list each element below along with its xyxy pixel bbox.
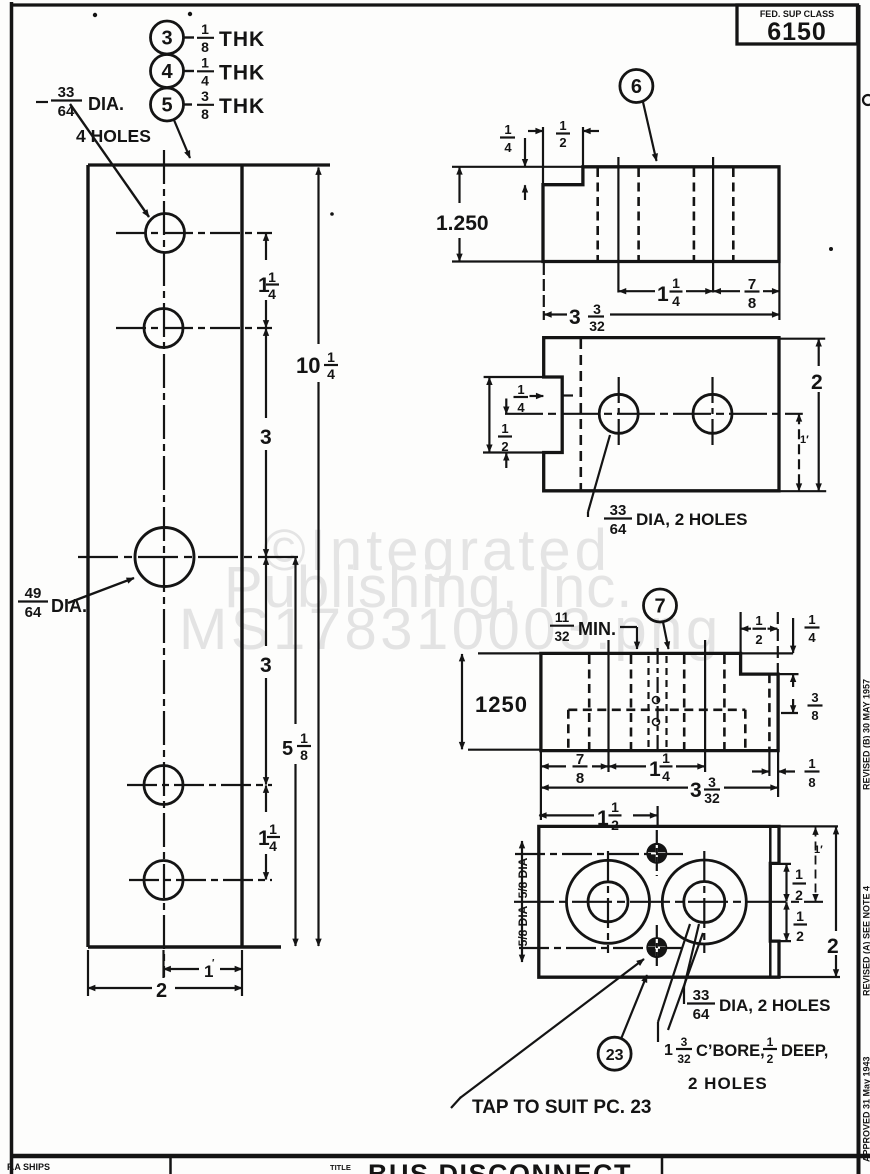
- extension below plate center: [162, 950, 164, 978]
- label 1 3/32 C'BORE 1/2 DEEP: [664, 1035, 691, 1066]
- svg-text:64: 64: [610, 521, 627, 538]
- ext notch right: [582, 127, 584, 167]
- svg-text:8: 8: [808, 775, 815, 790]
- label 49/64 DIA: [25, 585, 42, 621]
- plan6 left edge ext below: [543, 263, 545, 320]
- plan7 hidden 1/8 ext below: [768, 752, 770, 776]
- front7 right tab ext lower: [770, 940, 791, 942]
- balloon 6 leader: [643, 102, 657, 161]
- plan7 tap centerline: [656, 648, 658, 752]
- svg-text:2: 2: [501, 439, 508, 454]
- svg-text:4: 4: [662, 768, 670, 784]
- balloon 5 leader: [174, 120, 190, 158]
- large hole centerline: [78, 556, 302, 558]
- svg-text:APPROVED 31 May 1943: APPROVED 31 May 1943: [862, 1056, 870, 1162]
- plate bottom edge: [88, 945, 281, 948]
- dim 1 1/4 plan7: [609, 765, 646, 767]
- border right: [857, 5, 861, 1174]
- dim 1/2 upper front7: [785, 864, 787, 901]
- leaders c'bore: [668, 933, 703, 1030]
- svg-text:2 HOLES: 2 HOLES: [688, 1074, 768, 1093]
- plan7 top edge extension left: [478, 652, 541, 654]
- front6 hidden line notch: [579, 339, 582, 490]
- svg-text:1: 1: [517, 382, 524, 397]
- plan6 hidden hole edge 1a: [596, 168, 599, 261]
- dim 1 1/4 plan6: [619, 290, 655, 292]
- svg-text:3: 3: [681, 1035, 688, 1049]
- hole H3: [144, 766, 183, 805]
- front7 tap vert centerline upper: [656, 830, 658, 876]
- plate top edge with extension: [88, 163, 330, 166]
- balloon 6: [620, 70, 653, 103]
- hole H2: [144, 309, 183, 348]
- svg-text:32: 32: [589, 318, 605, 334]
- svg-text:6: 6: [631, 76, 642, 98]
- svg-text:1: 1: [808, 612, 815, 627]
- svg-text:1: 1: [808, 756, 815, 771]
- svg-text:32: 32: [704, 790, 720, 806]
- svg-text:32: 32: [677, 1052, 691, 1066]
- svg-text:1′: 1′: [800, 434, 809, 446]
- dim 1.250: [458, 167, 460, 203]
- svg-text:P.A SHIPS: P.A SHIPS: [7, 1162, 50, 1172]
- svg-text:MIN.: MIN.: [578, 619, 616, 639]
- svg-text:1: 1: [796, 908, 804, 924]
- svg-text:1.250: 1.250: [436, 212, 489, 235]
- svg-text:2: 2: [156, 980, 167, 1002]
- front7 counterbore left outer: [567, 860, 650, 943]
- title divider 2: [661, 1158, 664, 1174]
- balloon 23: [598, 1037, 631, 1070]
- sidebar mark: [863, 95, 870, 105]
- svg-text:33: 33: [58, 84, 75, 101]
- svg-text:7: 7: [654, 596, 665, 618]
- title block top line: [10, 1154, 870, 1159]
- tap leader: [460, 959, 644, 1098]
- svg-text:3: 3: [690, 779, 702, 802]
- svg-text:2: 2: [811, 371, 823, 394]
- svg-text:33: 33: [610, 502, 627, 519]
- stray dot 1: [93, 13, 97, 17]
- svg-text:11: 11: [555, 610, 570, 625]
- balloon 7 leader: [663, 622, 669, 649]
- stray dot 3: [829, 247, 833, 251]
- front7 left hole vert centerline: [607, 851, 609, 953]
- dim 5 1/8: [294, 558, 296, 725]
- dim 1/2 notch width: [528, 130, 543, 132]
- svg-text:1: 1: [559, 118, 566, 133]
- plan6 center line hole2: [712, 157, 714, 293]
- dim 1 1/4 holes3-4: [265, 786, 267, 813]
- plan7 hidden tap edge b: [665, 656, 667, 748]
- front7 counterbore right outer: [662, 860, 746, 944]
- balloon 7: [644, 589, 677, 622]
- svg-text:3: 3: [161, 28, 172, 50]
- dim 1/8 plan7: [752, 770, 769, 772]
- svg-text:64: 64: [693, 1006, 710, 1023]
- svg-text:8: 8: [748, 295, 756, 312]
- front7 tap hole lower: [646, 937, 667, 958]
- svg-text:3: 3: [260, 654, 272, 677]
- leader 33/64 to hole: [70, 104, 149, 217]
- svg-text:33: 33: [693, 987, 710, 1004]
- svg-text:1: 1: [649, 758, 661, 781]
- plan7 center line hole2: [704, 640, 706, 772]
- extension below plate left: [87, 950, 89, 996]
- dim 3 3/32 plan6: [544, 313, 567, 315]
- rotated 5/8 DIA upper: [516, 857, 530, 898]
- front7 top ext right: [779, 825, 838, 827]
- svg-text:49: 49: [25, 585, 42, 602]
- dim 2 front7: [835, 827, 837, 931]
- svg-text:3: 3: [708, 774, 716, 790]
- plan6 bottom edge extension: [452, 260, 543, 262]
- dim 1 front7: [815, 828, 817, 902]
- dim 1/4 notch depth: [524, 138, 526, 166]
- balloon 5 tick: [184, 103, 192, 105]
- svg-text:64: 64: [25, 604, 42, 621]
- balloon 5: [151, 88, 184, 121]
- svg-text:1: 1: [657, 283, 669, 306]
- svg-text:5: 5: [161, 95, 172, 117]
- svg-text:8: 8: [201, 39, 209, 55]
- svg-text:8: 8: [576, 770, 584, 787]
- dim 1250 plan7: [461, 654, 463, 749]
- plan7 hidden hole edge 1a: [588, 655, 591, 750]
- hole H3 centerline: [127, 784, 272, 786]
- dim 1/4 plan7 notch depth: [792, 618, 794, 653]
- dim 2 front6: [818, 339, 820, 366]
- svg-text:1: 1: [672, 275, 680, 291]
- leader 49/64: [68, 578, 134, 603]
- svg-text:4: 4: [808, 630, 816, 645]
- svg-text:1: 1: [664, 1042, 673, 1059]
- fraction 1/4 THK: [201, 55, 209, 89]
- stray dot 1b: [188, 12, 192, 16]
- plate vertical centerline: [163, 150, 165, 977]
- front7 big hole centerline: [514, 901, 823, 903]
- svg-text:2: 2: [795, 887, 803, 903]
- dim 3 3/32 plan7: [541, 786, 688, 788]
- dim chain 1 1/4 holes1-2: [265, 234, 267, 261]
- svg-text:3: 3: [569, 306, 581, 329]
- front7 hole left inner: [588, 882, 628, 922]
- front7 tap centerline lower: [519, 947, 683, 949]
- svg-text:REVISED (B) 30 MAY 1957: REVISED (B) 30 MAY 1957: [862, 679, 870, 790]
- fraction 1/8 THK: [201, 21, 209, 55]
- svg-text:THK: THK: [219, 62, 265, 85]
- front6 notch top ext: [484, 376, 543, 378]
- plan6 top edge extension: [452, 166, 583, 168]
- plan6 hidden hole edge 1b: [637, 168, 640, 261]
- svg-text:TAP TO SUIT PC. 23: TAP TO SUIT PC. 23: [472, 1097, 652, 1118]
- plan7 right edge ext below: [777, 752, 779, 797]
- plan6 hidden hole edge 2b: [732, 168, 735, 261]
- dim 2 bottom: [88, 987, 152, 989]
- svg-text:THK: THK: [219, 95, 265, 118]
- notch bottom ext right: [778, 673, 798, 675]
- svg-text:32: 32: [554, 629, 569, 644]
- plan7 hidden hole edge 2b: [723, 655, 726, 750]
- svg-text:1: 1: [767, 1035, 774, 1049]
- dim 10 1/4: [317, 168, 319, 345]
- hole H4 centerline: [129, 879, 272, 881]
- front7 outline with right tabs: [539, 826, 779, 977]
- front6 notch height dim line: [488, 378, 490, 452]
- svg-text:3: 3: [201, 88, 209, 104]
- svg-text:BUS DISCONNECT: BUS DISCONNECT: [368, 1159, 632, 1174]
- svg-text:C’BORE,: C’BORE,: [696, 1042, 765, 1060]
- plan7 top edge extension right: [741, 652, 794, 654]
- balloon 23 leader: [621, 975, 647, 1039]
- svg-text:2: 2: [755, 632, 762, 647]
- leader 11/32: [620, 626, 637, 628]
- svg-text:8: 8: [300, 747, 308, 763]
- fraction 3/8 THK: [201, 88, 209, 122]
- svg-text:8: 8: [811, 708, 818, 723]
- plan7 center detail circle a: [653, 697, 660, 704]
- dim 3/8 plan7: [792, 699, 794, 713]
- leader 33/64 front7: [684, 924, 699, 987]
- label 33/64 DIA 2 HOLES front6: [588, 435, 610, 512]
- stray dot 2: [330, 212, 334, 216]
- plan7 hidden tap edge a: [647, 656, 649, 748]
- svg-text:1: 1: [268, 269, 276, 285]
- plan7 center line hole1: [607, 640, 609, 772]
- svg-text:′: ′: [212, 958, 215, 969]
- recess ext right: [781, 712, 798, 714]
- svg-text:5/8 DIA: 5/8 DIA: [516, 857, 530, 898]
- dim 1 front6: [798, 414, 800, 490]
- svg-text:4: 4: [672, 293, 680, 309]
- svg-text:2: 2: [559, 135, 566, 150]
- svg-text:DEEP,: DEEP,: [781, 1042, 828, 1060]
- svg-text:2: 2: [767, 1052, 774, 1066]
- svg-text:4: 4: [504, 140, 512, 155]
- front6 hole1: [599, 394, 638, 433]
- label 33/64 DIA 2 HOLES front7: [693, 987, 710, 1023]
- front6 top ext right: [779, 338, 825, 340]
- svg-text:1: 1: [201, 21, 209, 37]
- svg-text:5: 5: [282, 738, 293, 760]
- plan6 center line hole1: [617, 157, 619, 293]
- plan7 left edge ext below: [540, 752, 542, 820]
- border top: [10, 3, 859, 6]
- svg-text:1′: 1′: [814, 844, 823, 856]
- svg-text:1: 1: [611, 799, 619, 815]
- plan7 outline with top-right notch: [541, 653, 778, 750]
- svg-text:1: 1: [662, 750, 670, 766]
- border left: [10, 2, 14, 1174]
- svg-text:2: 2: [796, 928, 804, 944]
- front6 hole centerline: [505, 413, 803, 415]
- front7 hole right inner: [684, 882, 725, 923]
- svg-text:DIA, 2 HOLES: DIA, 2 HOLES: [719, 996, 830, 1015]
- plan6 hidden hole edge 2a: [693, 168, 696, 261]
- title divider 1: [169, 1158, 172, 1174]
- front6 hole2: [693, 394, 732, 433]
- svg-text:3: 3: [260, 426, 272, 449]
- svg-text:4: 4: [268, 286, 276, 302]
- svg-text:1: 1: [327, 349, 335, 365]
- hole H1 centerline: [116, 232, 272, 234]
- plate left edge: [86, 165, 89, 947]
- svg-text:1: 1: [269, 821, 277, 837]
- ext notch left: [542, 127, 544, 184]
- hole H1: [146, 214, 185, 253]
- front7 tap vert centerline lower: [656, 925, 658, 968]
- dim 1/2 lower front7: [785, 902, 787, 940]
- svg-text:1: 1: [501, 421, 508, 436]
- front6 bottom ext right: [779, 490, 826, 492]
- label 33/64 DIA 4 HOLES: [58, 84, 75, 120]
- front6 outline with left notch: [544, 338, 779, 491]
- balloon 3 tick: [184, 36, 194, 38]
- extension below plate right: [241, 950, 243, 996]
- front7 right tab ext upper: [770, 863, 791, 865]
- front7 right hole vert centerline: [703, 851, 705, 953]
- plan7 recess hidden top: [568, 708, 745, 711]
- hole H2 centerline: [116, 327, 272, 329]
- fed sup class box: [737, 5, 858, 44]
- label 11/32 MIN: [554, 610, 569, 644]
- svg-text:DIA, 2 HOLES: DIA, 2 HOLES: [636, 510, 747, 529]
- dim 7/8 plan6: [714, 290, 740, 292]
- svg-text:10: 10: [296, 353, 320, 378]
- front6 hole1 vert tick: [618, 377, 620, 450]
- front7 left dim line 5/8 5/8: [521, 841, 523, 962]
- front7 tap centerline upper: [515, 853, 683, 855]
- dim 1/4 depth front6: [517, 382, 525, 415]
- svg-text:REVISED (A) SEE NOTE 4: REVISED (A) SEE NOTE 4: [862, 886, 870, 996]
- plan7 hidden hole edge 2a: [683, 655, 686, 750]
- plan7 recess hidden left: [567, 710, 570, 750]
- large hole 49/64: [135, 528, 194, 587]
- front6 notch bottom ext: [483, 451, 543, 453]
- hole H4: [144, 861, 183, 900]
- plan7 hidden hole edge 1b: [630, 655, 633, 750]
- balloon 3: [151, 21, 184, 54]
- front6 hole2 vert tick: [711, 377, 713, 450]
- svg-text:TITLE: TITLE: [330, 1163, 351, 1172]
- dim 3 big-hole3: [265, 558, 267, 647]
- plan7 hidden 1/8 line: [768, 674, 771, 751]
- svg-text:8: 8: [201, 106, 209, 122]
- svg-text:1: 1: [300, 730, 308, 746]
- front7 tap hole upper: [646, 843, 667, 864]
- svg-text:1250: 1250: [475, 692, 528, 717]
- ext tap centerline for 1 1/2: [656, 806, 658, 827]
- dim 1/2 front6: [505, 399, 507, 414]
- front7 bottom ext right: [779, 976, 840, 978]
- balloon 4: [151, 55, 184, 88]
- dim 1 1/2 plan7: [539, 814, 594, 816]
- svg-text:6150: 6150: [767, 18, 827, 46]
- plan6 right edge ext below: [778, 263, 780, 320]
- plate right edge: [240, 165, 243, 947]
- plan7 recess hidden right: [744, 710, 747, 750]
- svg-text:5/8 DIA: 5/8 DIA: [516, 905, 530, 946]
- balloon 4 tick: [184, 70, 194, 72]
- svg-text:4: 4: [201, 73, 209, 89]
- svg-text:4: 4: [161, 61, 173, 83]
- svg-text:3: 3: [593, 301, 601, 317]
- dim 3 holes2-big: [265, 329, 267, 419]
- svg-text:1: 1: [795, 866, 803, 882]
- svg-text:4: 4: [269, 838, 277, 854]
- svg-text:DIA.: DIA.: [88, 94, 124, 114]
- svg-text:1: 1: [201, 55, 209, 71]
- svg-text:THK: THK: [219, 28, 265, 51]
- svg-text:3: 3: [811, 690, 818, 705]
- svg-text:1: 1: [755, 613, 762, 628]
- plan6 outline with notch: [543, 167, 779, 262]
- svg-text:1: 1: [504, 122, 511, 137]
- front7 inner right edge: [769, 827, 772, 977]
- dim 1 bottom: [164, 968, 200, 970]
- dim 7/8 plan7: [541, 765, 566, 767]
- svg-text:2: 2: [827, 935, 839, 958]
- svg-text:4: 4: [327, 366, 335, 382]
- plan7 bottom edge extension left: [468, 749, 541, 751]
- rotated 5/8 DIA lower: [516, 905, 530, 946]
- dim 1/2 plan7 notch: [739, 612, 741, 653]
- svg-text:23: 23: [606, 1047, 624, 1064]
